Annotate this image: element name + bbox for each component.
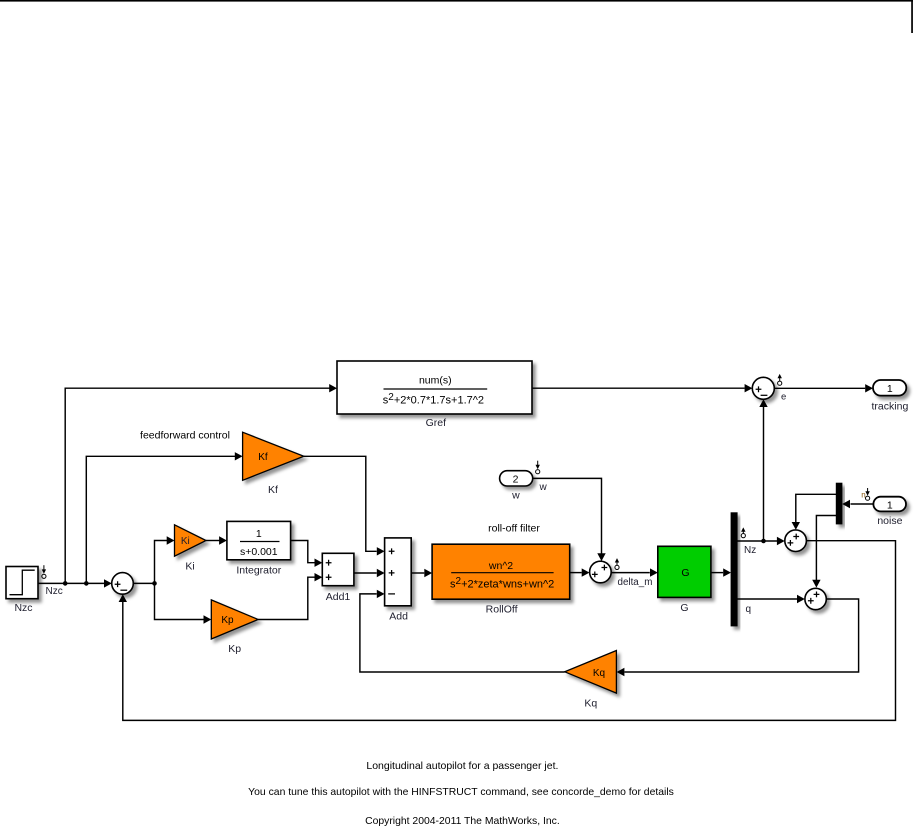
- inport noise: [873, 497, 906, 512]
- wire Kp to Add1 in2: [258, 577, 315, 619]
- svg-text:Kq: Kq: [593, 668, 605, 679]
- linearization input badge at w: [537, 461, 539, 467]
- wire demux q to Sum3: [737, 598, 797, 600]
- transfer fcn block RollOff: [432, 544, 570, 599]
- wire mux out1 to Sum2 top: [796, 494, 836, 522]
- svg-text:e: e: [781, 392, 786, 403]
- svg-text:Nzc: Nzc: [46, 586, 63, 597]
- wire Ki to Integrator: [206, 540, 220, 542]
- svg-text:Integrator: Integrator: [236, 565, 281, 577]
- wire Sum2 output feedback loop: [123, 541, 896, 721]
- linearization input badge at Nzc: [43, 565, 45, 571]
- linearization output badge at Nz: [741, 534, 745, 538]
- wire branch up to Kf: [86, 456, 235, 583]
- wire Sum1 output with junction: [133, 582, 154, 584]
- wire constant w to Sum delta: [533, 478, 602, 553]
- wire branch up to Gref: [65, 388, 329, 583]
- wire step Nzc output to Sum1: [38, 582, 105, 584]
- junction node at x65: [63, 581, 68, 586]
- svg-text:Kp: Kp: [228, 643, 241, 655]
- svg-text:Nzc: Nzc: [14, 602, 32, 614]
- sum block Sum3 q+noise: [805, 588, 826, 609]
- sum block Sum delta: [590, 561, 612, 583]
- wire Nz up to Sum e: [763, 407, 765, 541]
- svg-text:w: w: [511, 490, 520, 502]
- wire to Ki: [155, 541, 168, 584]
- svg-text:1: 1: [887, 383, 893, 395]
- svg-text:wn^2: wn^2: [488, 560, 513, 572]
- linearization output badge at e: [778, 381, 782, 385]
- wire Kf to Add in1: [304, 456, 377, 551]
- svg-text:Ki: Ki: [185, 561, 194, 573]
- mux bar for noise: [836, 483, 842, 524]
- wire Kq to Add minus input: [360, 594, 565, 672]
- wire to Kp: [155, 583, 204, 619]
- sum block Sum2 Nz+noise: [785, 530, 807, 552]
- svg-text:w: w: [539, 482, 548, 493]
- svg-text:q: q: [746, 604, 752, 615]
- gain block Kf: [243, 432, 304, 480]
- step source block Nzc: [6, 567, 38, 599]
- wire Sum3 output to Kq: [625, 599, 859, 672]
- svg-text:Copyright 2004-2011 The MathWo: Copyright 2004-2011 The MathWorks, Inc.: [365, 816, 560, 827]
- svg-text:1: 1: [887, 499, 893, 511]
- wire Add1 to Add: [354, 572, 377, 574]
- svg-text:1: 1: [256, 528, 262, 540]
- transfer fcn block Integrator: [227, 521, 291, 559]
- svg-text:2: 2: [513, 473, 519, 485]
- sum block Sum1: [112, 573, 134, 595]
- wire Add to RollOff: [411, 572, 424, 574]
- junction node on Nz wire: [761, 539, 766, 544]
- svg-text:tracking: tracking: [872, 400, 909, 412]
- svg-text:Kf: Kf: [268, 484, 278, 496]
- linearization output badge at delta_m: [615, 565, 619, 569]
- sum block Add: [385, 538, 412, 606]
- constant block w: [500, 471, 533, 486]
- svg-text:Kq: Kq: [584, 697, 597, 709]
- svg-text:roll-off filter: roll-off filter: [488, 523, 540, 535]
- wire Integrator to Add1 in1: [291, 541, 315, 563]
- wire RollOff to Sum delta: [570, 572, 582, 574]
- demux bar: [731, 513, 737, 626]
- svg-text:Longitudinal autopilot for a p: Longitudinal autopilot for a passenger j…: [366, 760, 558, 772]
- wire Gref to Sum e: [532, 387, 745, 389]
- gain block Ki: [175, 525, 207, 556]
- svg-text:G: G: [680, 602, 688, 614]
- page top border line: [0, 0, 913, 2]
- linearization input badge at noise: [867, 488, 869, 493]
- wire Sum delta to G: [611, 572, 649, 574]
- svg-text:feedforward control: feedforward control: [140, 430, 230, 442]
- page corner vertical line: [911, 0, 913, 33]
- svg-text:Ki: Ki: [181, 536, 190, 547]
- svg-text:Add1: Add1: [326, 591, 351, 603]
- svg-text:You can tune this autopilot wi: You can tune this autopilot with the HIN…: [248, 787, 674, 798]
- svg-text:Nz: Nz: [744, 545, 756, 556]
- svg-text:G: G: [681, 567, 689, 579]
- outport tracking: [873, 380, 906, 396]
- wire mux out2 to Sum3 top: [816, 516, 836, 581]
- svg-text:RollOff: RollOff: [486, 604, 518, 616]
- svg-text:n: n: [861, 491, 865, 500]
- svg-text:Add: Add: [389, 611, 408, 623]
- transfer fcn block Gref: [337, 361, 532, 414]
- wire G to demux: [711, 572, 723, 574]
- svg-text:s+0.001: s+0.001: [240, 546, 278, 558]
- svg-text:Kf: Kf: [258, 452, 268, 463]
- svg-text:s2+2*zeta*wns+wn^2: s2+2*zeta*wns+wn^2: [450, 576, 554, 590]
- svg-text:s2+2*0.7*1.7s+1.7^2: s2+2*0.7*1.7s+1.7^2: [383, 392, 484, 406]
- wire demux Nz to Sum2: [737, 540, 777, 542]
- wire Sum e to tracking outport: [774, 387, 865, 389]
- svg-text:noise: noise: [877, 515, 902, 527]
- plant block G: [658, 546, 711, 597]
- gain block Kp: [211, 600, 258, 639]
- svg-text:num(s): num(s): [419, 375, 452, 387]
- gain block Kq: [565, 651, 617, 694]
- sum block Add1: [322, 553, 354, 585]
- wire noise inport to mux: [851, 503, 874, 505]
- sum block Sum e: [752, 377, 774, 399]
- svg-text:Kp: Kp: [221, 615, 234, 626]
- svg-text:Gref: Gref: [426, 417, 447, 429]
- svg-text:delta_m: delta_m: [618, 577, 653, 588]
- junction node at x86: [84, 581, 89, 586]
- junction node after Sum1: [152, 581, 157, 586]
